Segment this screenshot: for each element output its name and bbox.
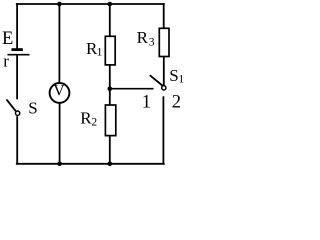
svg-text:S: S [169, 66, 178, 85]
svg-text:2: 2 [172, 93, 181, 113]
svg-text:3: 3 [149, 36, 155, 48]
svg-text:S: S [28, 98, 37, 117]
svg-text:V: V [53, 83, 65, 100]
svg-text:1: 1 [142, 93, 151, 113]
svg-text:1: 1 [97, 47, 103, 59]
svg-text:r: r [3, 52, 9, 71]
svg-text:E: E [2, 29, 13, 49]
svg-text:R: R [80, 109, 92, 128]
svg-text:1: 1 [178, 74, 184, 86]
svg-text:R: R [137, 28, 149, 47]
svg-text:2: 2 [91, 116, 97, 128]
